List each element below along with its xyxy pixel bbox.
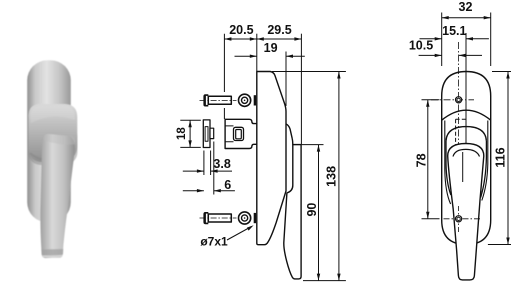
15.1 dimension line with outside arrows: [420, 38, 489, 40]
bottom screw centerline: [200, 217, 237, 219]
bottom washer center dot: [244, 217, 246, 219]
arrow 19 left: [250, 55, 257, 58]
116 top extension line: [492, 71, 511, 73]
top screw head cap: [203, 94, 208, 106]
dimension line 20.5 / 29.5: [224, 38, 301, 40]
photo lever tip shade: [41, 249, 63, 256]
10.5 dimension line with outside arrows: [419, 54, 482, 56]
dim 116: [488, 72, 511, 245]
arrow 20.5 right: [250, 37, 257, 40]
dim 18: [176, 120, 201, 147]
138 arrow up: [337, 72, 340, 79]
116 dimension line: [507, 72, 509, 245]
adapter boss: [210, 128, 214, 138]
bottom screw torx: [457, 217, 460, 221]
78 arrow up: [426, 100, 429, 107]
dim 90: [293, 145, 324, 281]
svg-text:78: 78: [415, 153, 429, 167]
bottom washer outer circle: [239, 212, 251, 224]
photo collar: [29, 104, 78, 162]
15.1 arrow right: [466, 37, 473, 40]
adapter inner line: [205, 127, 208, 142]
front lever: [448, 144, 484, 280]
dim 138: [272, 72, 346, 281]
vertical centerline: [458, 42, 460, 152]
spindle adapter side view: [203, 120, 213, 148]
bottom screw head slit: [206, 214, 208, 223]
6 arrow left: [197, 189, 204, 192]
138 arrow down: [337, 274, 340, 281]
svg-text:15.1: 15.1: [442, 24, 466, 38]
rosette inner face line left: [445, 121, 451, 205]
svg-text:19: 19: [264, 41, 278, 55]
138 top extension line: [272, 71, 346, 73]
78 bottom extension line: [422, 218, 440, 220]
top washer center dot: [244, 100, 246, 102]
lever inner arc: [453, 149, 480, 156]
90 arrow up: [317, 145, 320, 152]
dim 78: [415, 100, 440, 219]
top screw hole: [456, 97, 462, 103]
dimension line 19 with outside arrows: [235, 55, 305, 57]
18 arrow down: [188, 140, 191, 147]
dim 6: [183, 142, 235, 195]
138 bottom extension line: [303, 280, 346, 282]
116 bottom extension line: [488, 244, 511, 246]
32 arrow left: [442, 16, 449, 19]
bottom screw hole centerline: [444, 218, 481, 220]
arrow 29.5 left: [257, 37, 264, 40]
nut boss: [234, 127, 244, 140]
10.5 arrow right: [459, 54, 466, 57]
138 dimension line: [338, 72, 340, 281]
bottom screw hole: [456, 216, 462, 222]
handle side profile rosette: [257, 72, 286, 245]
78 top extension line: [422, 99, 440, 101]
extension line B x=256.8 top: [256, 34, 258, 71]
photo collar bottom crease: [30, 153, 52, 161]
photo lever: [40, 134, 74, 258]
svg-text:32: 32: [459, 0, 473, 14]
Ø7x1 leader arrow: [247, 225, 254, 230]
svg-text:18: 18: [176, 127, 188, 140]
top screw hole tick: [254, 95, 256, 105]
arrow 29.5 right: [294, 37, 301, 40]
bottom washer inner circle: [242, 215, 248, 221]
svg-text:29.5: 29.5: [267, 23, 291, 37]
3.8 dimension line with outside arrows: [183, 170, 232, 172]
boss side right: [481, 141, 487, 198]
photo lever top shade: [43, 135, 75, 145]
photo rosette top face seam: [29, 111, 71, 116]
3.8 extension lines: [204, 151, 211, 176]
svg-text:3.8: 3.8: [213, 157, 230, 171]
collar arc: [442, 110, 491, 120]
32 dimension line: [442, 17, 491, 19]
6 arrow right: [214, 189, 221, 192]
78 arrow down: [426, 212, 429, 219]
top screw torx: [457, 98, 460, 102]
3.8 arrow left: [197, 169, 204, 172]
front rosette outline: [442, 72, 491, 245]
nut block front view: [225, 119, 257, 148]
top screw: [200, 94, 237, 106]
6 dimension line with outside arrows: [183, 190, 235, 192]
svg-text:138: 138: [325, 166, 339, 187]
6 extension line right: [213, 142, 215, 195]
90 arrow down: [317, 274, 320, 281]
18 arrow up: [188, 120, 191, 127]
nut block inner lines: [225, 126, 233, 142]
bottom screw hole vertical centerline: [458, 206, 460, 232]
hidden spindle square dashed: [456, 119, 466, 145]
nut block outline: [225, 119, 257, 148]
32 arrow right: [484, 16, 491, 19]
photo collar highlight: [31, 106, 75, 123]
3.8 arrow right: [211, 169, 218, 172]
photo collar under-shadow: [28, 124, 78, 165]
arrow 19 right: [286, 55, 293, 58]
svg-text:116: 116: [494, 147, 508, 167]
dim 3.8: [183, 151, 232, 176]
116 arrow up: [506, 72, 509, 79]
18 extension lines: [180, 120, 201, 147]
bottom screw hole tick: [254, 213, 256, 223]
top screw hole centerline: [431, 99, 474, 101]
bottom screw head cap: [203, 212, 208, 224]
svg-text:20.5: 20.5: [229, 23, 253, 37]
bottom screw: [200, 212, 237, 224]
svg-text:6: 6: [224, 178, 231, 192]
extension line C x=286: [285, 52, 287, 107]
90 dimension line: [318, 145, 320, 281]
boss arc: [446, 127, 486, 141]
32 extension lines: [442, 13, 491, 67]
handle side profile grip neck: [286, 124, 293, 145]
top washer inner circle: [242, 97, 248, 103]
arrow 20.5 left: [224, 37, 231, 40]
Ø7x1 leader line: [227, 227, 252, 241]
svg-text:90: 90: [305, 203, 319, 217]
handle side profile grip: [284, 145, 301, 279]
top washer outer circle: [239, 94, 251, 106]
lever ridge line: [462, 152, 464, 182]
15.1 arrow left: [435, 37, 442, 40]
photo lever tip sheen: [42, 255, 62, 257]
adapter outer plate: [203, 120, 210, 148]
top screw head slit: [206, 96, 208, 105]
15.1 extension line: [465, 33, 467, 143]
boss side left: [446, 141, 451, 195]
10.5 arrow left: [435, 54, 442, 57]
label Ø7x1: [200, 225, 253, 248]
photo of handle: [27, 60, 77, 258]
90 top extension line: [293, 144, 324, 146]
78 dimension line: [427, 100, 429, 219]
18 dimension line: [189, 120, 191, 147]
nut square hole: [236, 130, 242, 139]
bottom screw shaft: [208, 214, 231, 222]
rosette inner face line right: [482, 121, 488, 201]
top screw centerline: [200, 99, 237, 101]
photo rosette plate: [27, 60, 71, 222]
svg-text:ø7x1: ø7x1: [200, 234, 228, 248]
116 arrow down: [506, 238, 509, 245]
extension line A x=224.4: [223, 34, 225, 119]
extension line D x=301.4: [300, 34, 302, 144]
svg-text:10.5: 10.5: [409, 38, 433, 52]
top screw shaft: [208, 96, 231, 104]
